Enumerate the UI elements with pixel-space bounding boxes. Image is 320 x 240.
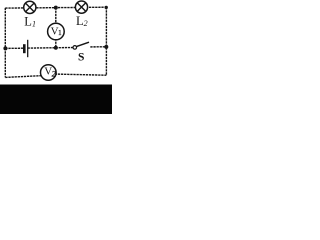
node junction dot V1 bottom tap (54, 46, 58, 50)
wire middle horizontal (battery-switch rail) (5, 47, 24, 49)
lamp L1 (24, 1, 36, 13)
black censor band at bottom (0, 85, 112, 115)
wire top horizontal (5, 6, 106, 9)
wire V1 branch vertical (55, 8, 57, 48)
voltmeter V1 (48, 23, 65, 40)
node junction dot top (V1 top tap) (54, 6, 58, 10)
lamp L2 (75, 1, 87, 13)
wire bottom horizontal (5, 74, 106, 77)
node junction dot left rail (3, 46, 7, 50)
switch S (73, 42, 89, 49)
node junction dot top-right corner (105, 6, 108, 9)
wire right vertical (105, 7, 107, 75)
svg-text:V2: V2 (44, 66, 56, 79)
voltmeter V2 (41, 65, 57, 81)
node junction dot right rail (104, 45, 108, 49)
wire left vertical (4, 8, 6, 78)
svg-text:S: S (78, 52, 84, 64)
battery cell (24, 40, 27, 57)
